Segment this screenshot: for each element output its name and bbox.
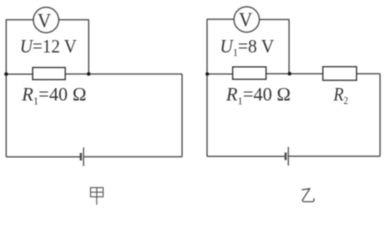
battery: short negative plate (circuit 乙) bbox=[285, 153, 287, 161]
svg-text:V: V bbox=[37, 10, 51, 32]
voltmeter V (circuit 甲) bbox=[33, 7, 58, 32]
wire: R2 right lead to right corner (circuit 乙) bbox=[356, 73, 380, 75]
wire: right vertical (circuit 乙) bbox=[379, 74, 381, 157]
wire: left vertical lower (circuit 甲) bbox=[5, 74, 7, 157]
wire: node to R1 left lead (circuit 乙) bbox=[207, 73, 233, 75]
svg-text:U=12 V: U=12 V bbox=[20, 36, 77, 57]
svg-text:R2: R2 bbox=[333, 84, 349, 107]
wire: voltmeter right lead down to node (circuit 乙) bbox=[259, 20, 289, 74]
wire: left branch up to voltmeter (circuit 乙) bbox=[207, 19, 234, 74]
node: junction left of R1 (circuit 甲) bbox=[4, 72, 8, 76]
battery: long positive plate (circuit 乙) bbox=[287, 147, 289, 166]
wire: bottom right to battery (circuit 甲) bbox=[84, 156, 183, 158]
label 乙 (drawn glyph) bbox=[302, 189, 314, 202]
wire: bottom right to battery (circuit 乙) bbox=[288, 155, 380, 157]
voltmeter V (circuit 乙) bbox=[234, 7, 259, 32]
wire: left branch up to voltmeter (circuit 甲) bbox=[6, 20, 34, 74]
node: junction right of R1 (circuit 甲) bbox=[87, 72, 91, 76]
resistor R1 (circuit 甲) bbox=[33, 68, 66, 80]
resistor R1 (circuit 乙) bbox=[233, 67, 266, 79]
battery: long positive plate (circuit 甲) bbox=[83, 147, 85, 166]
svg-text:R1=40 Ω: R1=40 Ω bbox=[21, 85, 87, 108]
wire: R1 right lead to right corner (circuit 甲) bbox=[65, 73, 182, 75]
resistor R2 (circuit 乙) bbox=[323, 67, 357, 81]
wire: node to R1 left lead (circuit 甲) bbox=[6, 73, 33, 75]
wire: left vertical lower (circuit 乙) bbox=[206, 74, 208, 156]
svg-text:R1=40 Ω: R1=40 Ω bbox=[225, 85, 291, 108]
wire: right vertical (circuit 甲) bbox=[181, 74, 183, 157]
label 甲 (drawn glyph) bbox=[91, 188, 104, 205]
node: junction left of R1 (circuit 乙) bbox=[205, 72, 209, 76]
wire: voltmeter right lead down to node (circuit 甲) bbox=[59, 20, 89, 74]
svg-text:U1=8 V: U1=8 V bbox=[220, 36, 275, 59]
node: junction right of R1 (circuit 乙) bbox=[288, 72, 292, 76]
svg-text:V: V bbox=[239, 9, 253, 31]
wire: R1 right lead to R2 left lead (circuit 乙) bbox=[266, 73, 323, 75]
battery: short negative plate (circuit 甲) bbox=[80, 153, 82, 161]
wire: battery to bottom left corner (circuit 乙) bbox=[207, 155, 286, 157]
wire: battery to bottom left corner (circuit 甲) bbox=[6, 156, 81, 158]
